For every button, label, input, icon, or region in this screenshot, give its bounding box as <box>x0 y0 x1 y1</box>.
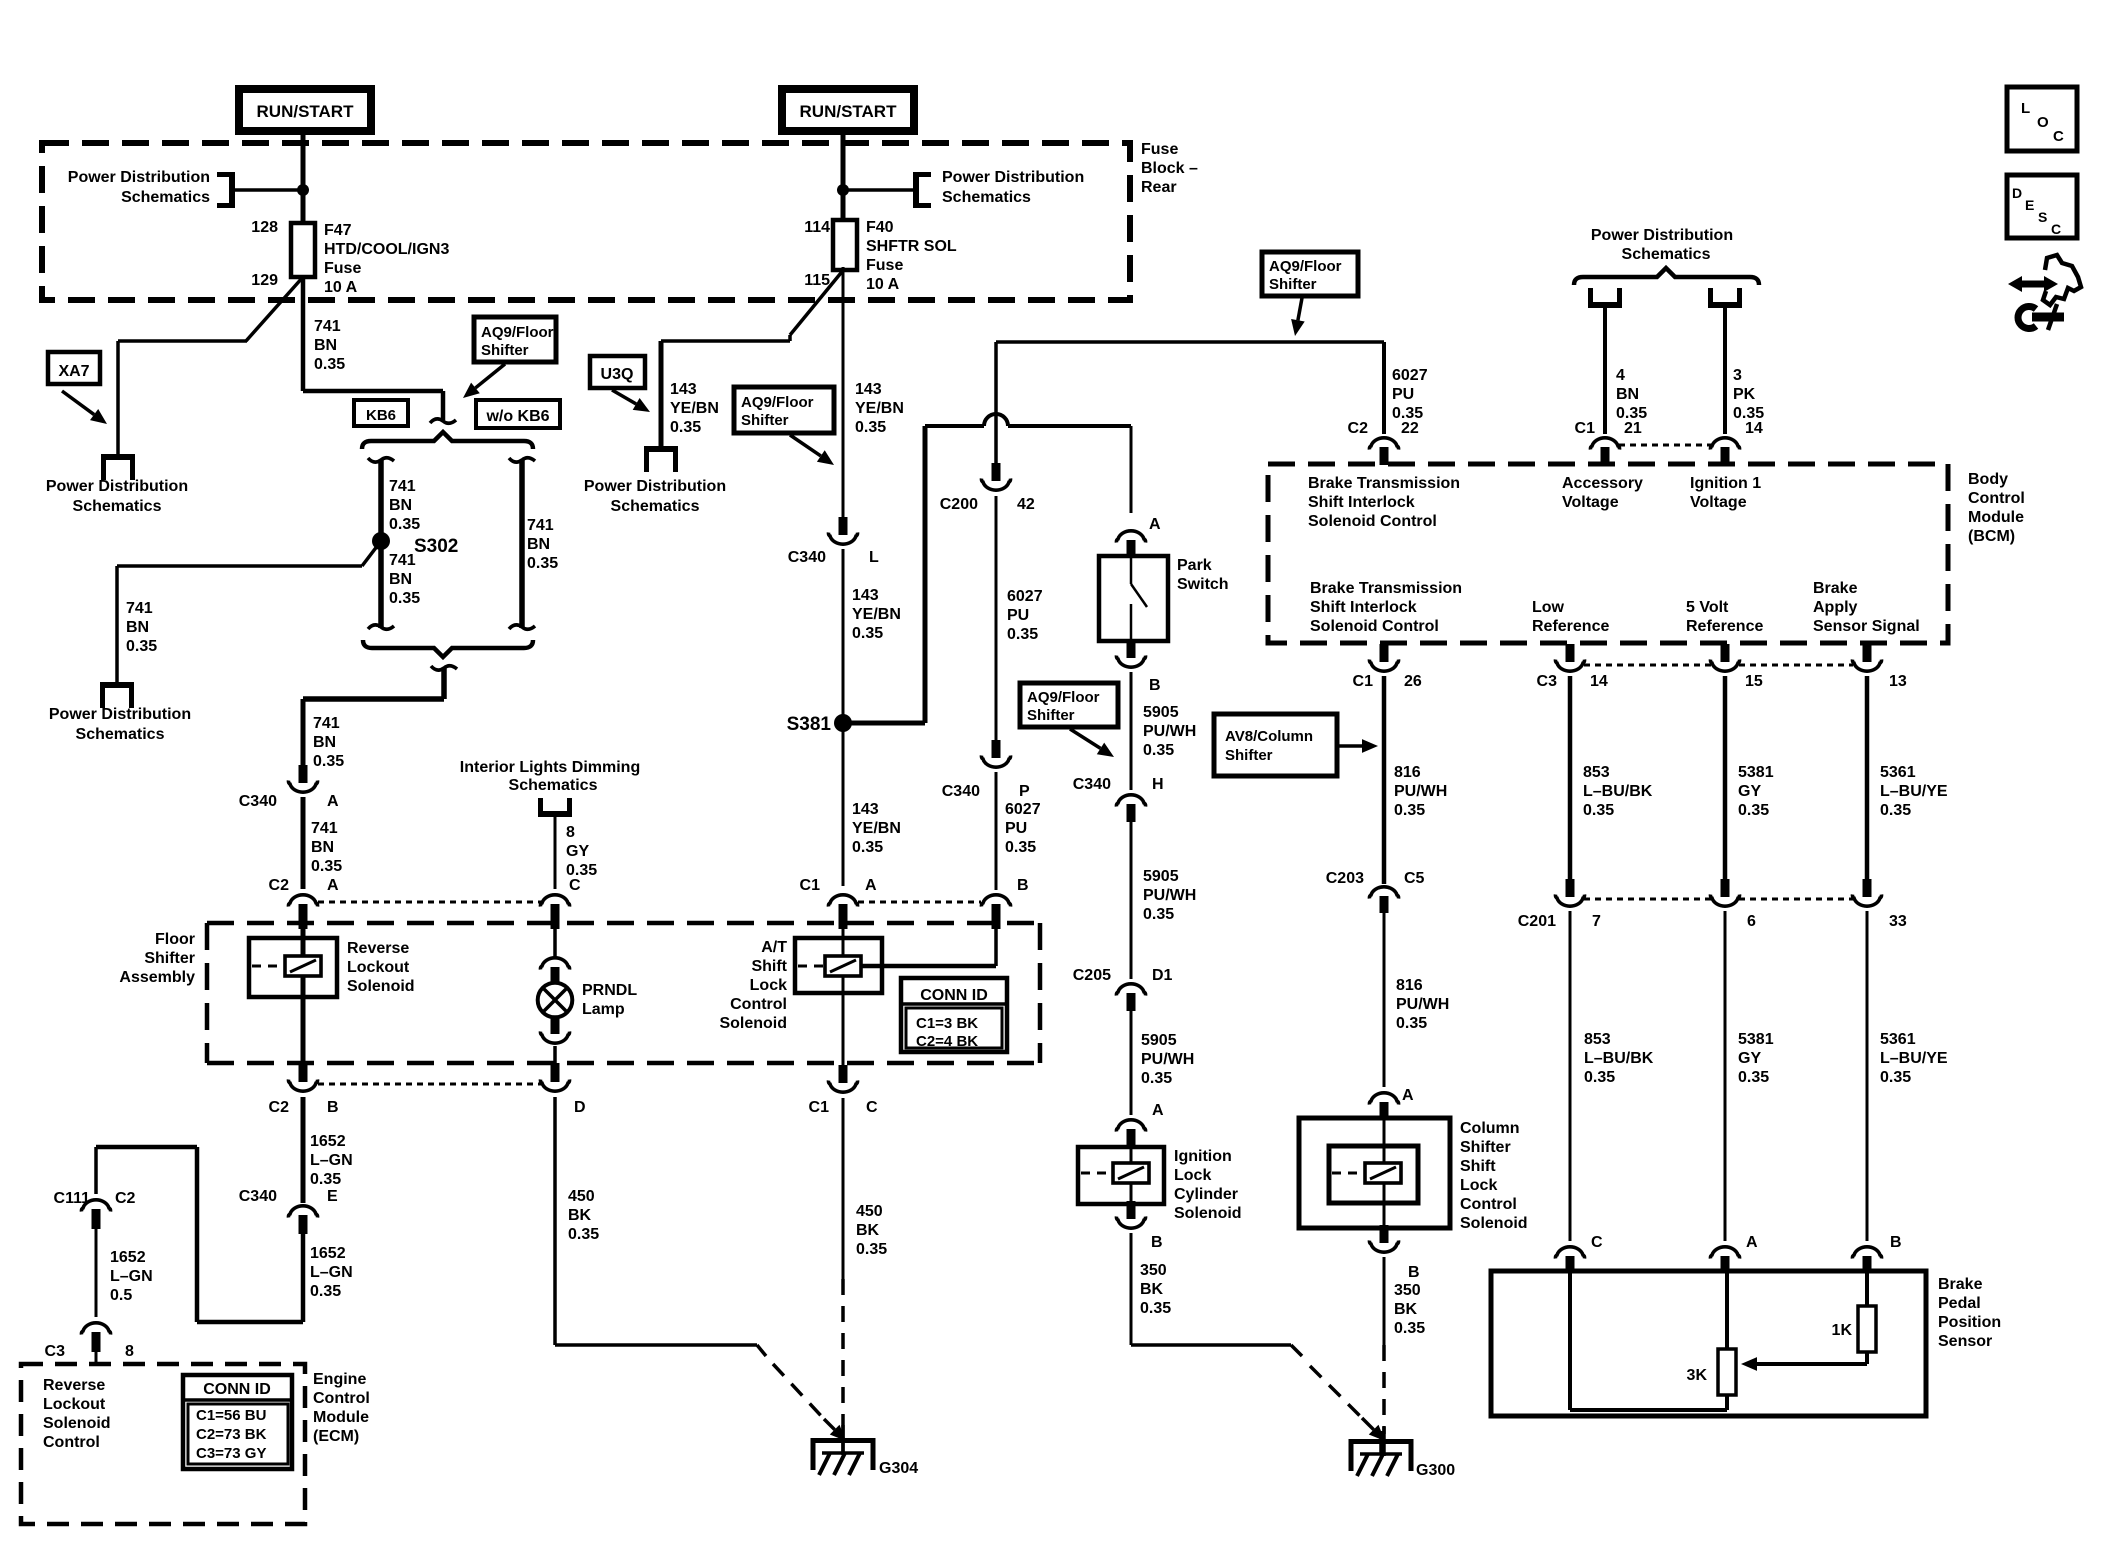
wire end hook (right merge) <box>509 625 535 629</box>
connector reference XA7 box <box>48 352 100 384</box>
svg-text:Shift: Shift <box>751 958 787 975</box>
svg-text:6027: 6027 <box>1007 588 1043 605</box>
svg-text:Module: Module <box>313 1409 369 1426</box>
svg-text:0.35: 0.35 <box>313 753 344 770</box>
label pin E <box>327 1188 338 1205</box>
label 3 PK 0.35 <box>1733 367 1764 422</box>
svg-text:C203: C203 <box>1326 870 1364 887</box>
svg-text:PU: PU <box>1007 607 1029 624</box>
pin 128 label <box>251 219 278 236</box>
svg-text:C3: C3 <box>45 1343 66 1360</box>
svg-text:U3Q: U3Q <box>601 366 634 383</box>
label C201 <box>1518 913 1556 930</box>
label C1 (A/T solenoid) <box>800 877 821 894</box>
svg-text:Power Distribution: Power Distribution <box>68 169 210 186</box>
svg-text:Lock: Lock <box>750 977 787 994</box>
svg-text:C: C <box>569 877 581 894</box>
wire 1652 C2B to C340 E <box>301 1097 306 1203</box>
park switch box <box>1099 556 1168 641</box>
connector reference U3Q box <box>590 356 645 388</box>
svg-text:Shift: Shift <box>1460 1158 1496 1175</box>
svg-text:Control: Control <box>313 1390 370 1407</box>
svg-text:G304: G304 <box>879 1460 918 1477</box>
label pin D1 <box>1152 967 1173 984</box>
wire S302 branch diagonal <box>362 541 381 566</box>
connector C3 pin 8 <box>81 1323 110 1352</box>
svg-text:B: B <box>1017 877 1029 894</box>
connector pin D <box>540 1063 569 1091</box>
svg-text:S302: S302 <box>414 536 458 557</box>
label 450 BK 0.35 (PRNDL D) <box>568 1188 599 1243</box>
brace KB6 split (opens down) <box>362 432 533 449</box>
connector C111 pin C2 <box>81 1200 110 1229</box>
label C2 (B) <box>269 1099 290 1116</box>
svg-text:Fuse: Fuse <box>866 257 903 274</box>
svg-text:Schematics: Schematics <box>76 726 165 743</box>
connector lamp top <box>540 958 569 970</box>
connector C200 pin 42 <box>981 463 1010 490</box>
label 741 BN 0.35 (below S302) <box>389 552 420 607</box>
svg-text:128: 128 <box>251 219 278 236</box>
label C2 (C111) <box>115 1190 136 1207</box>
svg-text:C3=73 GY: C3=73 GY <box>196 1445 266 1462</box>
label 350 BK 0.35 (column solenoid) <box>1394 1282 1425 1337</box>
svg-text:Schematics: Schematics <box>611 498 700 515</box>
svg-text:5905: 5905 <box>1143 868 1179 885</box>
label 5905 PU/WH 0.35 (park switch B) <box>1143 704 1196 759</box>
svg-text:C2=73 BK: C2=73 BK <box>196 1426 267 1443</box>
label G300 <box>1416 1462 1455 1479</box>
svg-text:A: A <box>865 877 877 894</box>
label 741 BN 0.35 (above C2 A) <box>311 820 342 875</box>
svg-text:PK: PK <box>1733 386 1756 403</box>
label 4 BN 0.35 <box>1616 367 1647 422</box>
label pin B (C2) <box>327 1099 339 1116</box>
svg-text:AQ9/Floor: AQ9/Floor <box>481 324 554 341</box>
svg-text:L–BU/YE: L–BU/YE <box>1880 783 1948 800</box>
svg-text:0.35: 0.35 <box>1880 802 1911 819</box>
connector pin B column solenoid <box>1369 1225 1398 1252</box>
label pin 26 <box>1404 673 1422 690</box>
dotted connector line 15-13 <box>1739 664 1853 667</box>
svg-text:33: 33 <box>1889 913 1907 930</box>
wire accessory voltage feed <box>1603 305 1607 434</box>
connector C1 pin 21 <box>1590 438 1619 465</box>
column shifter shift lock control solenoid <box>1299 1118 1450 1228</box>
svg-text:CONN ID: CONN ID <box>920 987 988 1004</box>
label pin A (park switch) <box>1149 516 1161 533</box>
wire end hook at KB6 branch <box>430 419 456 423</box>
svg-text:Rear: Rear <box>1141 179 1177 196</box>
svg-text:741: 741 <box>311 820 338 837</box>
connector C2 pin 22 <box>1369 438 1398 465</box>
svg-text:Position: Position <box>1938 1314 2001 1331</box>
wire S381 branch right and up <box>843 426 984 723</box>
svg-text:PRNDL: PRNDL <box>582 982 637 999</box>
svg-text:1652: 1652 <box>310 1133 346 1150</box>
node junction at RUN/START 1 feed <box>234 184 309 196</box>
wire 741 BN below fuse F47 <box>301 277 306 391</box>
ground G304 <box>813 1430 873 1475</box>
label C1 (BCM top) <box>1575 420 1596 437</box>
svg-text:A/T: A/T <box>761 939 787 956</box>
svg-text:Engine: Engine <box>313 1371 366 1388</box>
label pin 22 <box>1401 420 1419 437</box>
svg-text:Brake: Brake <box>1938 1276 1983 1293</box>
svg-text:RUN/START: RUN/START <box>800 102 898 121</box>
svg-text:0.35: 0.35 <box>1007 626 1038 643</box>
svg-text:O: O <box>2037 114 2049 131</box>
wire through column solenoid <box>1383 1118 1386 1228</box>
svg-text:L–GN: L–GN <box>110 1268 153 1285</box>
label 1652 L-GN 0.35 (above C340 E) <box>310 1133 353 1188</box>
wire C to PRNDL lamp <box>553 925 557 957</box>
wire brake apply signal to C201 <box>1865 676 1870 879</box>
arrow AV8/Column Shifter <box>1339 739 1378 753</box>
svg-text:A: A <box>1746 1234 1758 1251</box>
svg-text:Ignition: Ignition <box>1174 1148 1232 1165</box>
wire column solenoid B down <box>1383 1257 1386 1345</box>
wire corner to dashed ground run <box>757 1345 766 1356</box>
svg-text:Apply: Apply <box>1813 599 1858 616</box>
label pin A (ignition solenoid) <box>1152 1102 1164 1119</box>
label pin 21 <box>1624 420 1642 437</box>
label pin B (A/T) <box>1017 877 1029 894</box>
interior lights reference symbol <box>538 798 572 814</box>
wire pin 8 into ECM <box>95 1352 98 1364</box>
connector C340 pin H <box>1116 795 1145 822</box>
label 3K <box>1687 1367 1708 1384</box>
label 741 BN 0.35 (below F47) <box>314 318 345 373</box>
label 350 BK 0.35 (ignition solenoid) <box>1140 1262 1171 1317</box>
svg-text:C340: C340 <box>239 1188 277 1205</box>
svg-text:PU: PU <box>1392 386 1414 403</box>
label 143 YE/BN 0.35 (below S381) <box>852 801 901 856</box>
svg-text:5905: 5905 <box>1143 704 1179 721</box>
svg-text:1652: 1652 <box>110 1249 146 1266</box>
label pin 42 <box>1017 496 1035 513</box>
wire A/T solenoid to pin B <box>861 929 996 966</box>
svg-text:0.35: 0.35 <box>311 858 342 875</box>
label 741 BN 0.35 (w/o KB6 branch) <box>527 517 558 572</box>
svg-text:A: A <box>327 877 339 894</box>
svg-text:PU/WH: PU/WH <box>1143 723 1196 740</box>
svg-text:Schematics: Schematics <box>509 777 598 794</box>
svg-text:BN: BN <box>389 497 412 514</box>
svg-text:6: 6 <box>1747 913 1756 930</box>
svg-text:Solenoid: Solenoid <box>43 1415 111 1432</box>
svg-text:1K: 1K <box>1832 1322 1853 1339</box>
svg-text:350: 350 <box>1140 1262 1167 1279</box>
label C3 <box>45 1343 66 1360</box>
svg-text:4: 4 <box>1616 367 1625 384</box>
svg-text:0.35: 0.35 <box>527 555 558 572</box>
label 5905 PU/WH 0.35 (C340 H) <box>1143 868 1196 923</box>
fuse F47 <box>291 223 315 277</box>
label 143 YE/BN 0.35 (U3Q branch) <box>670 381 719 436</box>
svg-text:13: 13 <box>1889 673 1907 690</box>
label pin C (sensor) <box>1591 1234 1603 1251</box>
svg-text:8: 8 <box>566 824 575 841</box>
label pin B (sensor) <box>1890 1234 1902 1251</box>
svg-text:6027: 6027 <box>1005 801 1041 818</box>
label Power Distribution Schematics (BCM) <box>1591 227 1733 263</box>
wire through reverse lockout solenoid <box>301 929 306 1063</box>
svg-text:HTD/COOL/IGN3: HTD/COOL/IGN3 <box>324 241 449 258</box>
connector pin A sensor <box>1710 1247 1739 1272</box>
splice S302 <box>372 532 458 557</box>
svg-text:BK: BK <box>1140 1281 1164 1298</box>
connector pin C sensor <box>1555 1247 1584 1272</box>
label A/T Shift Lock Control Solenoid <box>719 939 787 1032</box>
wire hop to park switch column <box>1008 426 1131 513</box>
fuse F40 <box>833 220 857 270</box>
power distribution feed symbol (ignition 1) <box>1708 288 1742 305</box>
svg-text:AV8/Column: AV8/Column <box>1225 728 1313 745</box>
pin 129 label <box>251 272 278 289</box>
svg-text:143: 143 <box>855 381 882 398</box>
label Fuse Block - Rear <box>1141 141 1198 196</box>
label C2 (BCM) <box>1348 420 1369 437</box>
wire 3K bottom <box>1725 1395 1729 1410</box>
label C340 (E) <box>239 1188 277 1205</box>
svg-text:S: S <box>2038 209 2047 225</box>
svg-text:129: 129 <box>251 272 278 289</box>
svg-text:P: P <box>1019 783 1030 800</box>
svg-text:BN: BN <box>389 571 412 588</box>
svg-text:C1: C1 <box>1575 420 1596 437</box>
label C1 (26) <box>1353 673 1374 690</box>
svg-text:Ignition 1: Ignition 1 <box>1690 475 1761 492</box>
svg-text:0.35: 0.35 <box>1738 1069 1769 1086</box>
label 1652 L-GN 0.5 <box>110 1249 153 1304</box>
label pin 14 (C3) <box>1590 673 1608 690</box>
svg-text:YE/BN: YE/BN <box>670 400 719 417</box>
connector C2 pin B <box>288 1063 317 1091</box>
wire park switch B to C340 H <box>1130 672 1133 790</box>
svg-text:0.35: 0.35 <box>1141 1070 1172 1087</box>
label 8 GY 0.35 <box>566 824 597 879</box>
label Ignition 1 Voltage <box>1690 475 1761 511</box>
svg-text:SHFTR SOL: SHFTR SOL <box>866 238 957 255</box>
connector pin B park switch <box>1116 640 1145 667</box>
svg-text:C201: C201 <box>1518 913 1556 930</box>
svg-text:0.35: 0.35 <box>310 1171 341 1188</box>
svg-text:C: C <box>866 1099 878 1116</box>
svg-text:Solenoid: Solenoid <box>1460 1215 1528 1232</box>
svg-text:PU: PU <box>1005 820 1027 837</box>
svg-text:D: D <box>574 1099 586 1116</box>
icon DESC box <box>2007 175 2077 238</box>
wire D to ground run <box>555 1097 757 1345</box>
svg-text:0.35: 0.35 <box>1583 802 1614 819</box>
ignition lock cylinder solenoid <box>1078 1147 1164 1204</box>
svg-text:Shifter: Shifter <box>481 342 529 359</box>
svg-text:Control: Control <box>43 1434 100 1451</box>
label 741 BN 0.35 (KB6 branch) <box>389 478 420 533</box>
wire 450 BK from C1 C <box>842 1098 845 1279</box>
label pin L <box>869 549 879 566</box>
connector pin B ignition solenoid <box>1116 1201 1145 1228</box>
connector C201 pin 33 <box>1852 879 1881 906</box>
wire end hook (left merge) <box>368 625 394 629</box>
svg-text:Schematics: Schematics <box>942 189 1031 206</box>
label C340 (L) <box>788 549 826 566</box>
A/T shift lock control solenoid <box>795 938 882 993</box>
dashed wire to G300 <box>1382 1345 1386 1456</box>
svg-text:0.35: 0.35 <box>1396 1015 1427 1032</box>
label F47 HTD/COOL/IGN3 Fuse 10 A <box>324 222 449 296</box>
svg-text:Sensor Signal: Sensor Signal <box>1813 618 1920 635</box>
svg-text:AQ9/Floor: AQ9/Floor <box>741 394 814 411</box>
svg-text:14: 14 <box>1745 420 1763 437</box>
svg-text:XA7: XA7 <box>58 363 89 380</box>
connector pin 15 <box>1710 644 1739 671</box>
pin 115 label <box>804 272 830 289</box>
label 1652 L-GN 0.35 (below C340 E) <box>310 1245 353 1300</box>
connector C1 pin A <box>828 895 857 929</box>
label Power Distribution Schematics (fuse block left) <box>68 169 210 206</box>
svg-text:Voltage: Voltage <box>1562 494 1619 511</box>
arrow from U3Q to wire <box>612 390 650 412</box>
svg-text:Fuse: Fuse <box>324 260 361 277</box>
wire corner to dashed G300 run <box>1291 1345 1302 1356</box>
svg-text:Low: Low <box>1532 599 1565 616</box>
svg-text:CONN ID: CONN ID <box>203 1381 271 1398</box>
label Ignition Lock Cylinder Solenoid <box>1174 1148 1242 1222</box>
wire w/o KB6 branch <box>519 460 525 628</box>
pin out of lamp <box>540 1017 569 1043</box>
connector reference AQ9/Floor Shifter box 3 <box>1020 683 1118 727</box>
connector C340 pin E <box>288 1206 317 1234</box>
icon LOC box <box>2007 87 2077 151</box>
wire C1 26 to C203 <box>1382 676 1387 884</box>
power distribution reference bracket (left) <box>217 172 232 208</box>
label C203 <box>1326 870 1364 887</box>
floor shifter assembly dashed box <box>207 923 1040 1063</box>
label Park Switch <box>1177 557 1229 593</box>
wire RUN/START 2 to fuse F40 <box>841 131 846 222</box>
svg-text:3: 3 <box>1733 367 1742 384</box>
svg-text:0.35: 0.35 <box>1143 742 1174 759</box>
svg-text:450: 450 <box>568 1188 595 1205</box>
label C340 (H) <box>1073 776 1111 793</box>
engine control module dashed box <box>21 1364 305 1524</box>
dotted connector line C1A to B <box>858 901 981 904</box>
svg-text:15: 15 <box>1745 673 1763 690</box>
arrowhead into G304 <box>824 1419 846 1441</box>
label wire 741 BN 0.35 (XA7 branch) <box>126 600 157 655</box>
svg-text:E: E <box>327 1188 338 1205</box>
resistor 1K <box>1858 1306 1876 1352</box>
wire S302 branch to power distribution <box>117 566 362 683</box>
wire 143 YE/BN below F40 <box>842 267 845 518</box>
label 853 L-BU/BK 0.35 (C201) <box>1584 1031 1654 1086</box>
connector C3 pin 14 <box>1555 644 1584 671</box>
svg-text:AQ9/Floor: AQ9/Floor <box>1269 258 1342 275</box>
svg-text:BN: BN <box>313 734 336 751</box>
body control module dashed box <box>1268 464 1948 643</box>
svg-text:0.35: 0.35 <box>389 516 420 533</box>
svg-text:RUN/START: RUN/START <box>257 102 355 121</box>
connector pin C PRNDL <box>540 895 569 929</box>
label pin 8 <box>125 1343 134 1360</box>
wire C201 33 to sensor B <box>1866 911 1869 1241</box>
svg-text:Fuse: Fuse <box>1141 141 1178 158</box>
svg-text:Shifter: Shifter <box>1027 707 1075 724</box>
svg-text:5381: 5381 <box>1738 1031 1774 1048</box>
svg-text:Shifter: Shifter <box>1460 1139 1511 1156</box>
label 1K <box>1832 1322 1853 1339</box>
svg-text:Cylinder: Cylinder <box>1174 1186 1238 1203</box>
svg-text:C340: C340 <box>942 783 980 800</box>
svg-text:Solenoid: Solenoid <box>1174 1205 1242 1222</box>
svg-text:Module: Module <box>1968 509 2024 526</box>
svg-text:w/o KB6: w/o KB6 <box>485 408 549 425</box>
svg-text:GY: GY <box>1738 783 1761 800</box>
svg-text:S381: S381 <box>787 714 832 735</box>
label pin 7 <box>1592 913 1601 930</box>
label 5381 GY 0.35 (BCM) <box>1738 764 1774 819</box>
svg-text:BN: BN <box>311 839 334 856</box>
svg-text:5905: 5905 <box>1141 1032 1177 1049</box>
svg-text:0.35: 0.35 <box>1738 802 1769 819</box>
node junction at RUN/START 2 feed <box>837 184 914 196</box>
svg-text:450: 450 <box>856 1203 883 1220</box>
svg-text:0.35: 0.35 <box>855 419 886 436</box>
label C200 <box>940 496 978 513</box>
svg-text:Shifter: Shifter <box>144 950 195 967</box>
svg-text:21: 21 <box>1624 420 1642 437</box>
svg-text:741: 741 <box>527 517 554 534</box>
wire fuse F40 output diagonal <box>790 268 845 341</box>
svg-text:D1: D1 <box>1152 967 1173 984</box>
arrowhead into G300 <box>1362 1418 1385 1441</box>
svg-text:10 A: 10 A <box>866 276 900 293</box>
svg-text:L–BU/BK: L–BU/BK <box>1584 1050 1654 1067</box>
label PRNDL Lamp <box>582 982 637 1018</box>
svg-text:115: 115 <box>804 272 830 289</box>
wire C340 L to S381 <box>842 549 845 723</box>
svg-text:Solenoid Control: Solenoid Control <box>1308 513 1437 530</box>
svg-text:C1=3 BK: C1=3 BK <box>916 1015 978 1032</box>
svg-text:0.5: 0.5 <box>110 1287 132 1304</box>
svg-text:Shift Interlock: Shift Interlock <box>1308 494 1415 511</box>
svg-text:B: B <box>327 1099 339 1116</box>
ground G300 <box>1351 1431 1411 1476</box>
label pin A (sensor) <box>1746 1234 1758 1251</box>
svg-text:Floor: Floor <box>155 931 195 948</box>
wire S381 to C1 A <box>842 731 845 886</box>
svg-text:YE/BN: YE/BN <box>852 606 901 623</box>
connector C205 pin D1 <box>1116 984 1145 1011</box>
svg-text:C200: C200 <box>940 496 978 513</box>
svg-text:PU/WH: PU/WH <box>1141 1051 1194 1068</box>
connector pin 14 <box>1710 438 1739 465</box>
wire C340 E loop to C111 <box>96 1147 303 1322</box>
reverse lockout solenoid <box>249 938 337 997</box>
brace merge (opens up) <box>363 640 533 657</box>
svg-text:Reverse: Reverse <box>43 1377 105 1394</box>
wire C203 to column solenoid A <box>1383 913 1386 1087</box>
label Brake Apply Sensor Signal <box>1813 580 1920 635</box>
svg-text:C340: C340 <box>1073 776 1111 793</box>
wire top horizontal to BTSI column <box>996 340 1384 344</box>
wire to XA7 reference <box>118 341 247 455</box>
svg-text:C1: C1 <box>1353 673 1374 690</box>
icon wrench <box>2018 304 2064 330</box>
wire hook KB6 branch left <box>368 458 394 462</box>
